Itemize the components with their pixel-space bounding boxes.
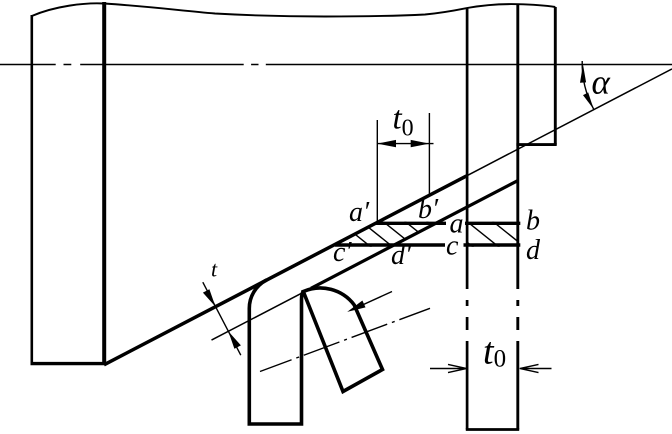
alpha arc arrowhead top xyxy=(580,65,586,83)
line c-d (H2) xyxy=(335,243,520,246)
alpha arc arrowhead bottom xyxy=(583,93,594,110)
tall bar right edge xyxy=(516,5,519,430)
body top wavy line xyxy=(32,3,556,16)
t0 extension line left xyxy=(376,120,378,222)
t0 dim arrowhead right xyxy=(411,140,430,147)
line a-b (H1) xyxy=(376,222,521,225)
hatch a'b'c'd' parallelogram xyxy=(336,219,460,248)
bottom t0 dim left arrow xyxy=(430,364,467,372)
rack lower line D2 thin part xyxy=(212,288,312,340)
svg-text:c: c xyxy=(446,231,459,262)
t0 dim arrowhead left xyxy=(377,140,396,147)
body bottom edge xyxy=(31,362,106,365)
svg-text:b′: b′ xyxy=(418,194,439,225)
leader arrow into slanted tooth xyxy=(352,292,392,310)
flank line D1 thick xyxy=(104,176,467,365)
t0 extension line right xyxy=(428,113,430,195)
svg-text:c′: c′ xyxy=(333,237,352,268)
svg-text:t: t xyxy=(211,257,218,282)
body left edge xyxy=(30,15,33,365)
rack lower line D2 thick part xyxy=(311,181,518,289)
t dimension line xyxy=(203,282,241,355)
tall bar left edge xyxy=(466,8,469,430)
body right edge (hub face) xyxy=(102,2,106,365)
alpha angle arc xyxy=(582,61,594,109)
svg-text:d: d xyxy=(526,235,541,266)
short bar right edge xyxy=(554,7,557,145)
centerline xyxy=(0,64,672,66)
t dim arrowhead upper (on D1) xyxy=(203,289,216,307)
hatch bar band xyxy=(438,219,526,248)
t dim arrowhead lower (on D2) xyxy=(228,331,241,349)
flank line D1 thin continuation xyxy=(467,69,672,176)
bottom t0 dim right arrow xyxy=(520,364,552,372)
svg-text:b: b xyxy=(526,206,540,237)
svg-text:d′: d′ xyxy=(391,240,412,271)
svg-text:α: α xyxy=(592,63,611,102)
t0 dimension line xyxy=(377,143,433,145)
svg-text:a′: a′ xyxy=(349,197,370,228)
short bar bottom edge xyxy=(516,143,556,146)
left tooth leg xyxy=(249,280,303,424)
tall bar bottom edge xyxy=(466,428,519,431)
slanted tooth (rotated section) xyxy=(303,288,382,392)
tooth axis dash-dot xyxy=(260,308,430,371)
